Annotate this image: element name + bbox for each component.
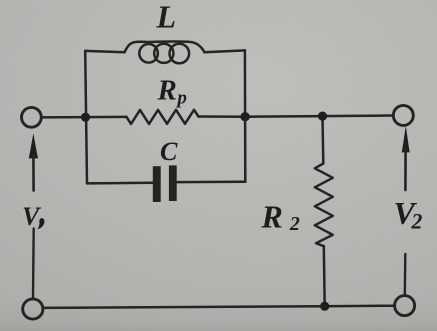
resistor R2 — [315, 164, 333, 247]
V2 arrow head — [402, 126, 410, 152]
wire capacitor branch right — [177, 181, 245, 184]
terminal circle top-right — [393, 105, 413, 125]
wire R2 lower lead — [323, 246, 326, 306]
wire bottom rail right — [325, 304, 395, 307]
wire inductor branch exit — [205, 50, 245, 52]
node R2 bottom junction — [320, 302, 329, 311]
node R2 top junction — [318, 112, 327, 121]
terminal circle top-left — [22, 107, 42, 127]
wire inductor branch entry — [85, 51, 124, 52]
capacitor C right plate — [169, 165, 177, 201]
svg-text:R2: R2 — [261, 199, 300, 236]
wire top rail: R2 node to right terminal — [323, 114, 394, 117]
capacitor C left plate — [153, 166, 161, 202]
wire V2 lower lead — [404, 254, 407, 296]
svg-text:Rp: Rp — [157, 75, 187, 109]
V2 arrow shaft — [404, 149, 407, 190]
wire right side of parallel box — [244, 50, 247, 182]
wire capacitor branch left — [87, 181, 153, 184]
inductor L top crossover path — [125, 41, 205, 52]
wire left side of parallel box — [85, 51, 87, 184]
node left box junction — [81, 113, 90, 122]
wire V1 lower lead — [32, 229, 35, 299]
V1 arrow head — [29, 134, 38, 159]
V1 arrow shaft — [32, 155, 35, 191]
wire top rail: Rp to right box node — [199, 115, 246, 118]
svg-text:C: C — [160, 137, 178, 166]
inductor L loop 1 — [139, 44, 158, 63]
wire bottom rail left — [43, 306, 324, 308]
terminal circle bottom-left — [23, 299, 43, 319]
node right box junction — [240, 112, 249, 121]
inductor L loop 2 — [154, 44, 173, 63]
terminal circle bottom-right — [395, 296, 415, 316]
svg-text:V2: V2 — [394, 195, 423, 234]
inductor L loop 3 — [170, 44, 190, 64]
wire R2 upper lead — [321, 116, 324, 163]
wire top rail: right box node to R2 node — [245, 115, 322, 118]
wire top rail: left terminal to Rp — [42, 116, 127, 119]
svg-text:L: L — [156, 0, 177, 35]
label V1 subscript mark — [38, 218, 45, 229]
resistor Rp — [127, 110, 199, 124]
